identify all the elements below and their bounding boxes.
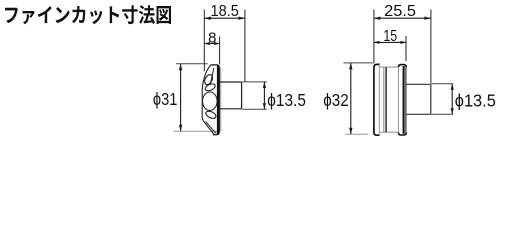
dimension 15 extension line right: [405, 36, 407, 61]
drum D1 top edge: [380, 66, 399, 68]
shaft S1 bottom line: [220, 108, 242, 110]
dimension phi13.5 right line with arrows: [451, 84, 454, 115]
cap C1 right edge: [405, 67, 407, 133]
svg-text:ϕ13.5: ϕ13.5: [455, 90, 496, 110]
wheel W1 face inner slant bottom: [206, 122, 217, 134]
dimension phi32 bottom tick: [345, 133, 368, 135]
dimension phi13.5 left label: [267, 90, 306, 110]
svg-text:ϕ32: ϕ32: [323, 90, 348, 110]
svg-text:8: 8: [208, 29, 216, 46]
dimension 18.5 line with arrows: [204, 17, 245, 20]
shaft S1 top line: [220, 81, 242, 83]
wheel W1 hole oval 3: [205, 110, 217, 120]
dimension 25.5 line with arrows: [374, 17, 431, 20]
dimension phi13.5 right label: [455, 90, 496, 110]
wheel W1 rim back edge: [220, 68, 222, 132]
dimension phi31 top tick: [176, 63, 208, 65]
wheel W1 face inner slant top: [210, 68, 214, 85]
dimension phi31 label: [153, 89, 178, 109]
title ファインカット寸法図: [5, 5, 171, 24]
wheel W1 rim outline: [211, 65, 220, 135]
shaft S2 end edge: [430, 84, 432, 114]
shaft S2 bottom line: [407, 113, 431, 115]
dimension 18.5 label: [211, 3, 239, 20]
dimension 15 label: [383, 28, 397, 45]
wheel W1 hole oval 1: [203, 73, 214, 86]
cap C1 inner dark line: [403, 66, 405, 134]
dimension 25.5 extension line left: [373, 10, 375, 64]
wheel W1 left profile: [202, 65, 214, 135]
shaft S1 end edge: [241, 82, 243, 109]
dimension phi13.5 left top tick: [242, 81, 267, 83]
svg-text:15: 15: [383, 28, 397, 45]
dimension phi13.5 right bottom tick: [431, 113, 453, 115]
dimension phi32 label: [323, 90, 348, 110]
dimension phi32 top tick: [344, 62, 373, 64]
svg-text:ϕ13.5: ϕ13.5: [267, 90, 306, 110]
dimension phi13.5 left bottom tick: [242, 108, 267, 110]
cap C1 left edge: [398, 67, 400, 133]
drum D1 seam dark: [385, 67, 387, 132]
dimension phi13.5 left line with arrows: [263, 82, 266, 109]
dimension 25.5 extension line right: [430, 10, 432, 84]
dimension 8 label: [208, 29, 216, 46]
dimension 18.5 extension line left: [203, 10, 205, 72]
svg-text:25.5: 25.5: [384, 3, 416, 20]
drum D1 bottom edge: [380, 131, 399, 133]
drum D1 seam light: [383, 68, 385, 133]
dimension 8 extension line right: [219, 37, 221, 65]
dimension 25.5 label: [384, 3, 416, 20]
cap C1 bottom edge: [399, 132, 407, 135]
dimension phi31 line with arrows: [179, 64, 182, 132]
svg-text:ϕ31: ϕ31: [153, 89, 178, 109]
flange F1 right edge: [378, 65, 380, 135]
dimension phi32 line with arrows: [349, 63, 352, 134]
dimension phi31 bottom tick: [174, 130, 220, 132]
shaft S2 top line: [407, 83, 431, 85]
dimension 8 line with arrows: [204, 42, 219, 45]
wheel W1 hole oval 2: [204, 82, 216, 92]
flange F1 outline: [374, 64, 380, 135]
dimension 18.5 extension line right: [244, 10, 246, 82]
svg-text:18.5: 18.5: [211, 3, 239, 20]
dimension phi13.5 right top tick: [431, 83, 453, 85]
wheel W1 center hole: [203, 92, 218, 110]
cap C1 top edge: [399, 65, 407, 68]
dimension 15 line with arrows: [374, 41, 406, 44]
